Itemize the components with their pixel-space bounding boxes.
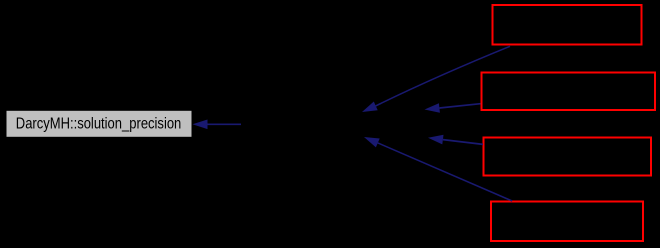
- edge E1: caller box 1 to center node: [362, 46, 510, 112]
- caller box 3 (red, third): [484, 138, 652, 176]
- caller box 2 (red, second): [482, 73, 656, 111]
- edge E3: caller box 3 to center node: [428, 135, 483, 145]
- edge E2: caller box 2 to center node: [425, 103, 481, 113]
- node DarcyMH::solution_precision (current node, gray): [7, 111, 192, 137]
- caller box 4 (red, bottom): [491, 202, 643, 242]
- svg-text:DarcyMH::solution_precision: DarcyMH::solution_precision: [16, 116, 182, 133]
- edge E0: center node to DarcyMH::solution_precision: [193, 120, 242, 130]
- edge E4: caller box 4 to center node: [364, 137, 512, 201]
- caller box 1 (red, top): [493, 5, 642, 45]
